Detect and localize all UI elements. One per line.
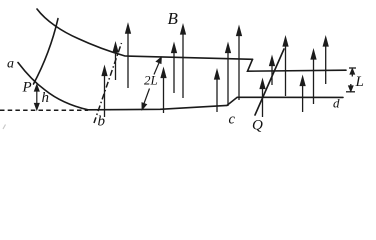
svg-text:Q: Q — [252, 118, 263, 134]
svg-text:b: b — [98, 114, 106, 130]
svg-text:c: c — [229, 112, 236, 128]
svg-text:B: B — [168, 9, 179, 28]
svg-text:L: L — [355, 74, 364, 90]
svg-text:2L: 2L — [144, 73, 158, 88]
svg-text:d: d — [333, 96, 340, 111]
svg-text:h: h — [42, 90, 50, 106]
svg-text:P: P — [22, 80, 32, 96]
svg-text:a: a — [7, 57, 14, 72]
